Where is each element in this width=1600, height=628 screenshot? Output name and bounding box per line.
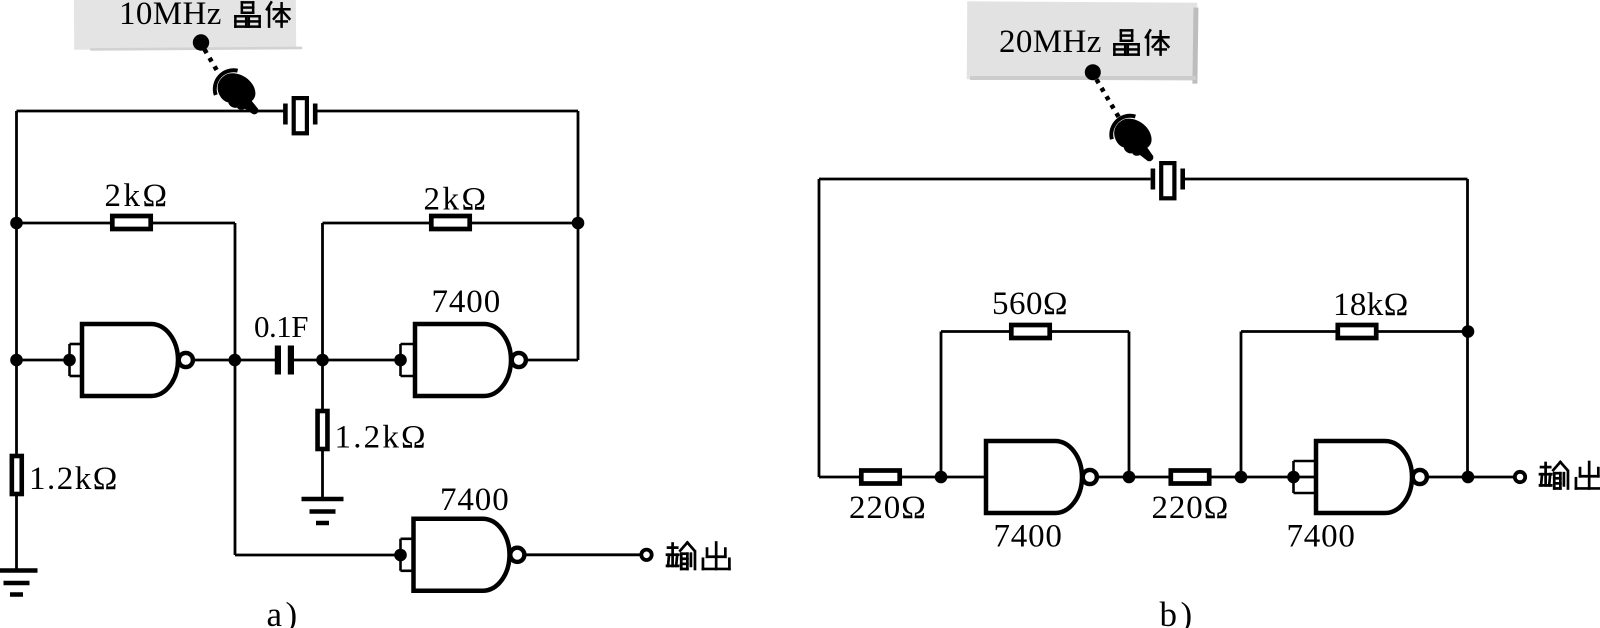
- svg-text:1.2kΩ: 1.2kΩ: [29, 461, 119, 497]
- svg-text:18kΩ: 18kΩ: [1333, 287, 1409, 323]
- svg-text:10MHz: 10MHz: [119, 0, 222, 32]
- svg-text:b): b): [1160, 595, 1196, 628]
- svg-text:7400: 7400: [994, 519, 1063, 555]
- svg-text:220Ω: 220Ω: [849, 490, 927, 526]
- svg-text:7400: 7400: [440, 482, 510, 518]
- svg-text:220Ω: 220Ω: [1152, 490, 1230, 526]
- svg-text:0.1F: 0.1F: [254, 309, 308, 344]
- svg-text:20MHz: 20MHz: [999, 24, 1102, 60]
- svg-text:7400: 7400: [432, 284, 502, 320]
- svg-text:7400: 7400: [1287, 519, 1356, 555]
- svg-text:1.2kΩ: 1.2kΩ: [335, 420, 428, 456]
- svg-text:560Ω: 560Ω: [992, 286, 1068, 322]
- svg-text:2kΩ: 2kΩ: [424, 182, 489, 218]
- svg-text:a): a): [267, 595, 301, 628]
- svg-text:2kΩ: 2kΩ: [105, 178, 170, 214]
